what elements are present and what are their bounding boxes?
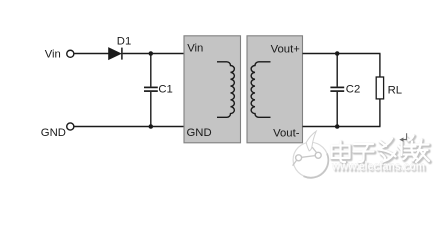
- svg-text:Vin: Vin: [45, 48, 61, 60]
- watermark logo notch: [306, 131, 316, 151]
- svg-text:GND: GND: [187, 127, 212, 139]
- watermark logo atom left: [296, 155, 302, 161]
- secondary winding L2: [251, 62, 270, 117]
- terminal Vin: [67, 50, 74, 57]
- watermark logo atom right: [315, 152, 321, 158]
- svg-text:Vin: Vin: [187, 42, 203, 54]
- wire Vout- rail: [303, 126, 381, 128]
- watermark brand text (stylized): [332, 136, 431, 164]
- capacitor C1: [144, 54, 158, 127]
- primary winding L1: [217, 62, 234, 117]
- watermark logo circle: [293, 131, 329, 178]
- resistor RL: [376, 54, 383, 127]
- svg-text:C2: C2: [346, 83, 360, 95]
- wire Vin terminal to diode anode: [74, 53, 108, 55]
- module box U1 (primary side): [184, 36, 241, 143]
- svg-text:Vout+: Vout+: [271, 43, 301, 55]
- watermark logo bond line lower: [293, 160, 297, 165]
- module box U2 (secondary side): [247, 36, 303, 143]
- svg-text:C1: C1: [158, 83, 172, 95]
- junction node C2 bottom: [335, 124, 340, 129]
- svg-text:D1: D1: [117, 35, 131, 47]
- junction node C1 top: [149, 51, 154, 56]
- svg-text:RL: RL: [388, 84, 402, 96]
- watermark logo link line: [302, 156, 315, 158]
- svg-text:Vout-: Vout-: [273, 128, 300, 140]
- wire Vout+ rail: [303, 53, 381, 55]
- svg-text:GND: GND: [41, 127, 66, 139]
- watermark url text: [331, 159, 427, 175]
- wire GND terminal to module box: [74, 126, 184, 128]
- capacitor C2: [330, 54, 344, 127]
- return arrow mark: [399, 133, 406, 142]
- svg-text:www.elecfans.com: www.elecfans.com: [331, 159, 425, 173]
- watermark logo circle shadow: [304, 154, 329, 178]
- junction node C2 top: [335, 51, 340, 56]
- watermark logo bond line upper: [312, 147, 316, 152]
- wire diode cathode to module box: [123, 53, 185, 55]
- diode D1: [109, 48, 122, 60]
- junction node C1 bottom: [149, 124, 154, 129]
- terminal GND: [67, 123, 74, 130]
